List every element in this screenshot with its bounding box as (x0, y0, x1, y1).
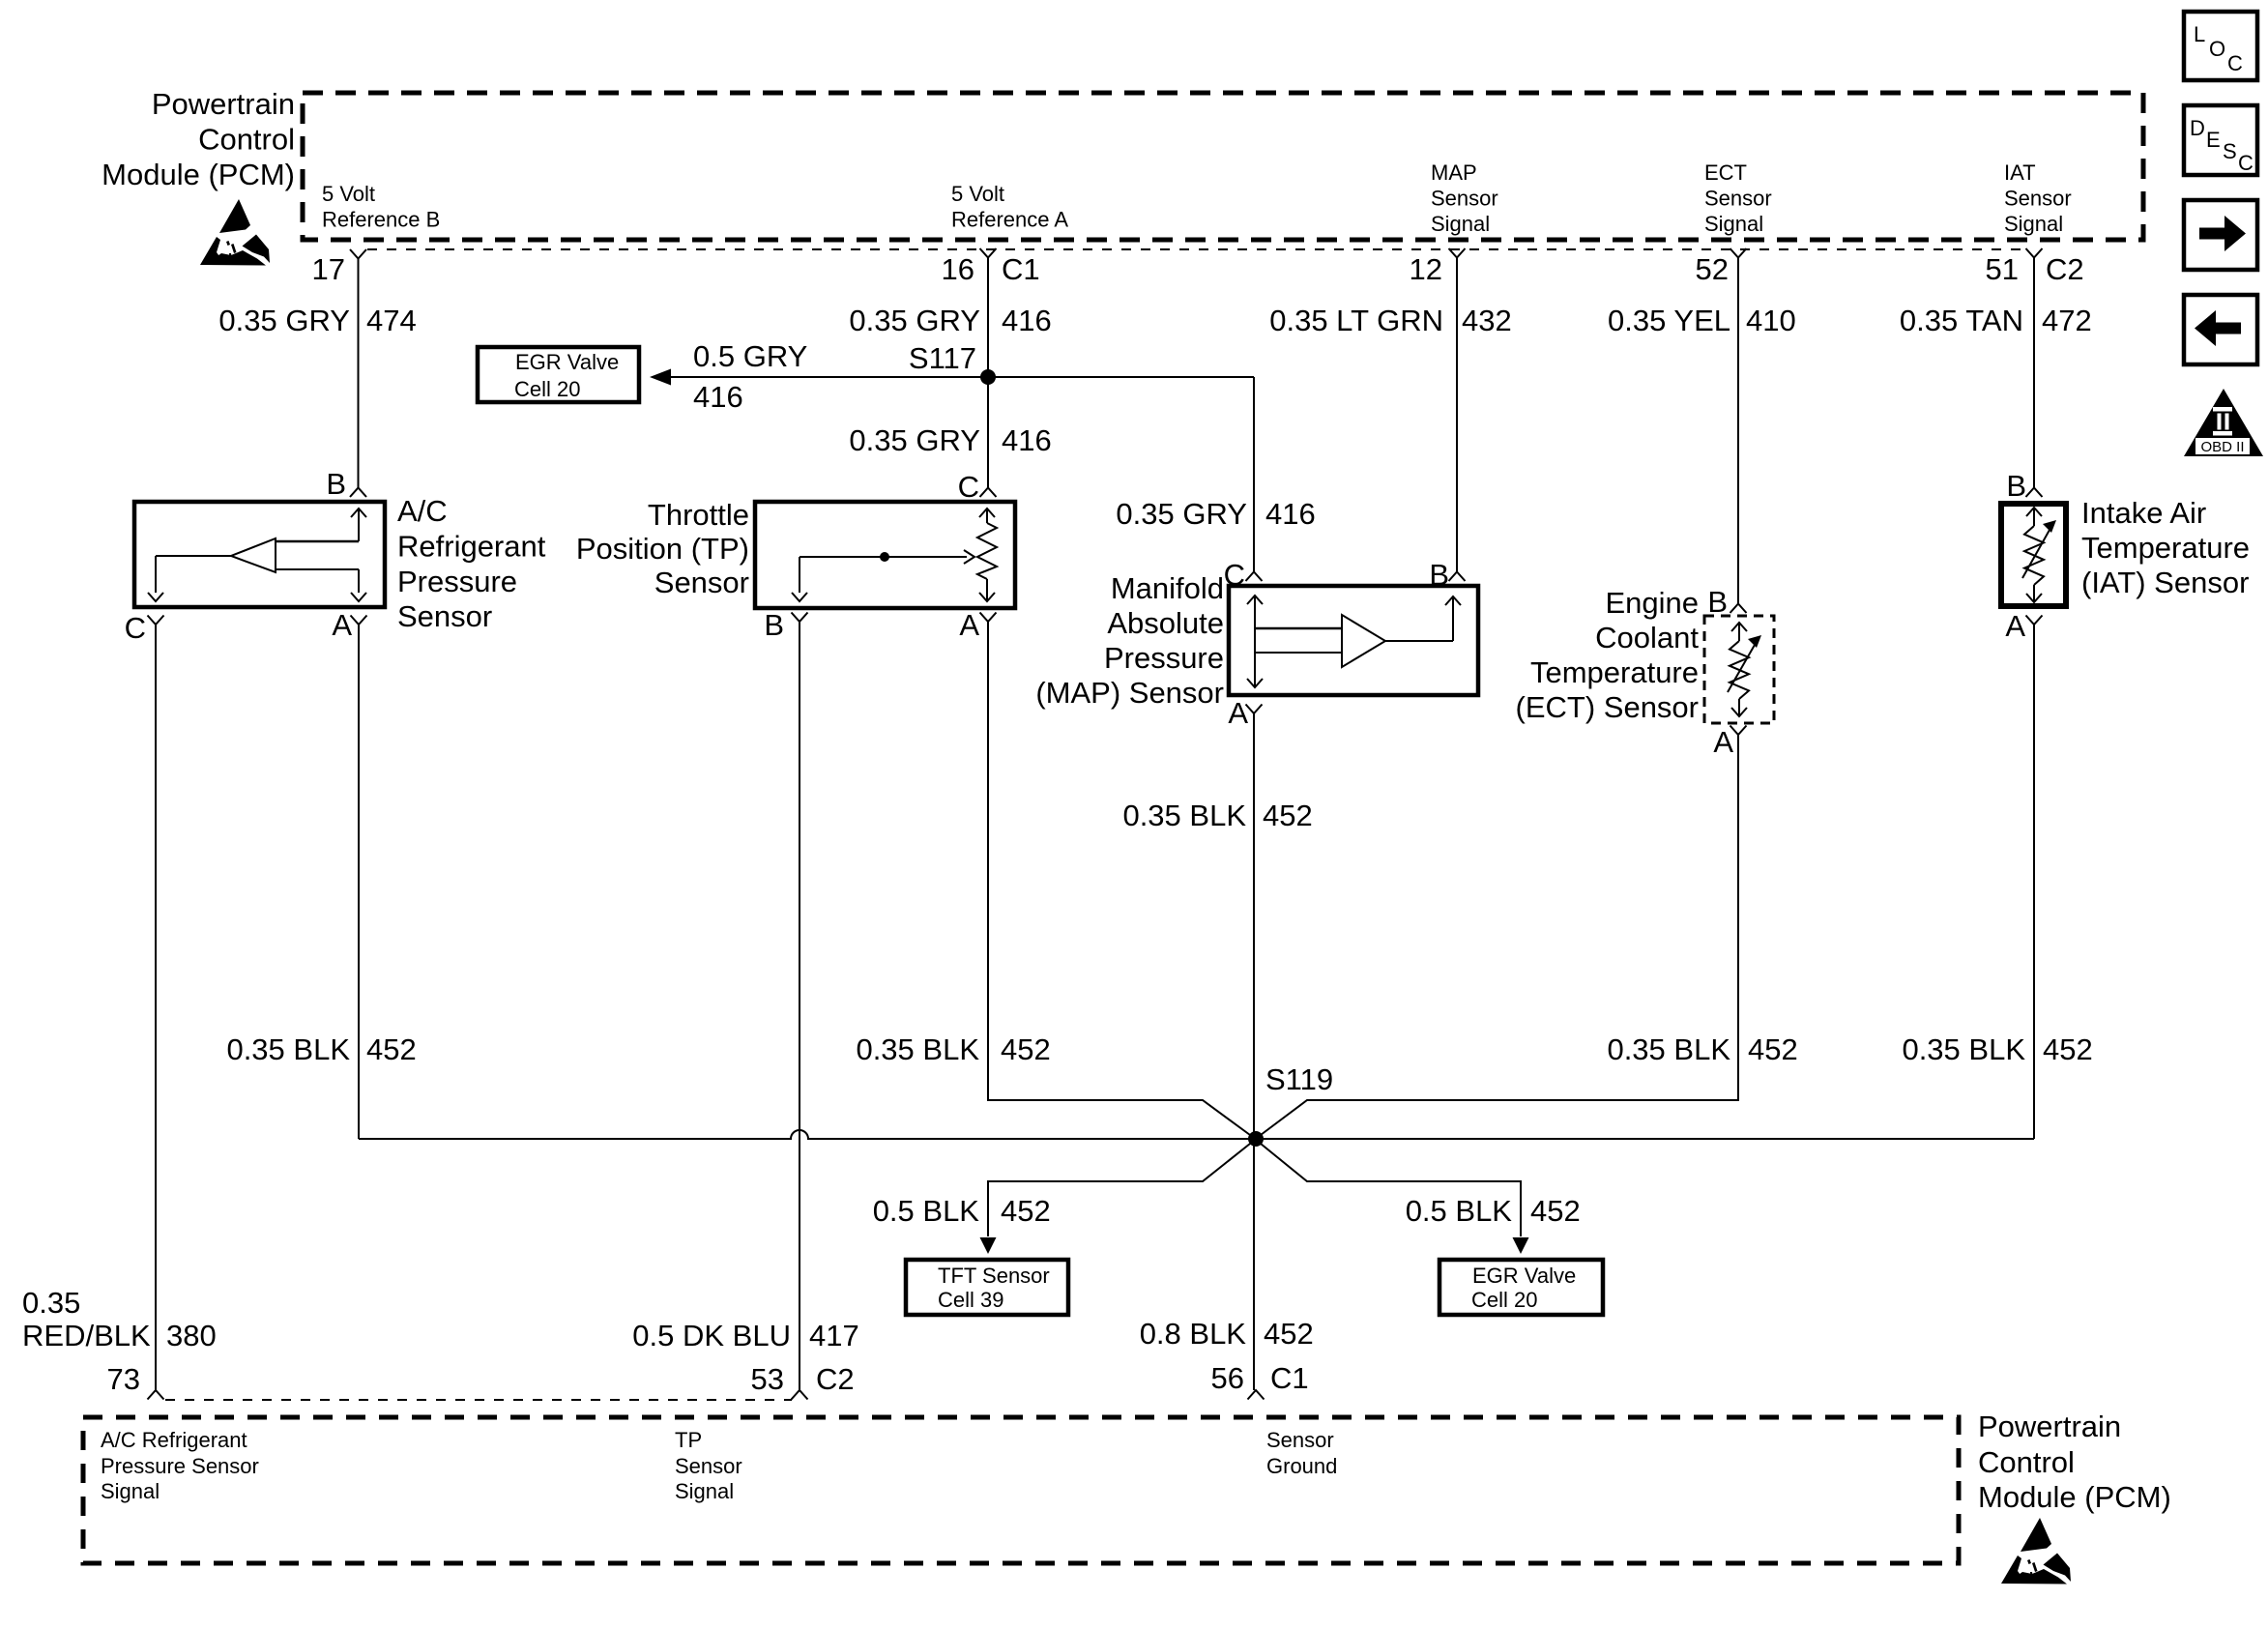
label 0.35 GRY 416 (MAP C) (1116, 497, 1315, 531)
svg-text:0.8 BLK: 0.8 BLK (1140, 1317, 1247, 1351)
svg-text:Signal: Signal (101, 1479, 160, 1503)
EGR Valve Cell 20 box (bottom) (1439, 1260, 1603, 1315)
svg-text:C1: C1 (1002, 252, 1040, 286)
svg-text:51: 51 (1986, 252, 2019, 286)
svg-text:Position (TP): Position (TP) (576, 532, 749, 566)
label 0.8 BLK 452 (sensor ground) (1140, 1317, 1314, 1351)
svg-text:S119: S119 (1265, 1062, 1333, 1096)
pin C of TP sensor (958, 470, 997, 504)
ECT sensor dashed box (1704, 616, 1774, 723)
pin B of IAT sensor (2006, 469, 2042, 503)
svg-text:Signal: Signal (1431, 212, 1490, 236)
pin 12 (MAP signal) (1410, 248, 1466, 286)
svg-text:A: A (1713, 725, 1733, 759)
IAT sensor box (2001, 504, 2066, 606)
svg-text:C: C (2227, 51, 2243, 75)
MAP sensor box (1229, 586, 1478, 695)
svg-text:A: A (332, 608, 352, 642)
svg-text:C2: C2 (816, 1362, 855, 1396)
svg-text:17: 17 (312, 252, 345, 286)
svg-text:C2: C2 (2046, 252, 2084, 286)
label 0.5 BLK 452 (EGR) (1406, 1194, 1581, 1228)
svg-text:Temperature: Temperature (1530, 655, 1699, 689)
EGR Valve Cell 20 box (top) (478, 347, 639, 402)
svg-text:Pressure Sensor: Pressure Sensor (101, 1454, 259, 1478)
svg-text:0.35 GRY: 0.35 GRY (218, 304, 350, 337)
ECT Sensor Signal label (1704, 160, 1772, 236)
PCM module (top) dashed box (303, 93, 2143, 240)
svg-text:B: B (1429, 558, 1449, 592)
ESD warning symbol (bottom PCM) (2001, 1518, 2071, 1584)
svg-text:474: 474 (366, 304, 417, 337)
pin C of MAP sensor (1224, 558, 1263, 592)
svg-text:0.35 BLK: 0.35 BLK (856, 1032, 979, 1066)
pin 73 (A/C signal) (107, 1362, 164, 1400)
svg-text:EGR Valve: EGR Valve (1472, 1264, 1576, 1288)
svg-text:Refrigerant: Refrigerant (397, 530, 546, 564)
svg-text:Cell 20: Cell 20 (1471, 1288, 1537, 1312)
svg-text:0.5 BLK: 0.5 BLK (1406, 1194, 1513, 1228)
C1/C2 connector dashed line (top) (367, 248, 2024, 250)
label 0.5 BLK 452 (TFT) (873, 1194, 1051, 1228)
pin 52 (ECT signal) (1696, 248, 1747, 286)
label 0.35 GRY 416 (upper) (849, 304, 1051, 337)
TFT Sensor Cell 39 box (906, 1260, 1068, 1315)
label 0.5 DK BLU 417 (632, 1319, 858, 1352)
svg-text:Sensor: Sensor (397, 599, 492, 633)
IAT sensor name label (2081, 496, 2250, 599)
svg-text:16: 16 (942, 252, 974, 286)
svg-text:Cell 39: Cell 39 (938, 1288, 1003, 1312)
svg-text:416: 416 (1002, 423, 1052, 457)
A/C sensor internals (amplifier) (148, 509, 366, 601)
svg-text:0.35: 0.35 (22, 1286, 80, 1320)
svg-text:A: A (1228, 696, 1248, 730)
svg-text:452: 452 (1001, 1032, 1051, 1066)
label 0.35 BLK 452 (IAT) (1902, 1032, 2092, 1066)
svg-text:Sensor: Sensor (1704, 187, 1772, 211)
svg-text:52: 52 (1696, 252, 1729, 286)
wire 416 branch: S117 to EGR valve (arrow) (650, 369, 1254, 386)
MAP sensor internals (amplifier) (1247, 596, 1461, 687)
svg-text:Sensor: Sensor (1431, 187, 1498, 211)
svg-text:O: O (2209, 37, 2225, 61)
svg-text:452: 452 (366, 1032, 417, 1066)
wire 474: pin 17 to A/C B (358, 259, 360, 489)
wire 416 branch to MAP C (1253, 377, 1255, 572)
pin C of A/C sensor (125, 611, 164, 645)
svg-text:EGR Valve: EGR Valve (515, 350, 619, 374)
label 0.5 GRY / 416 (693, 339, 807, 414)
svg-text:C: C (1224, 558, 1245, 592)
svg-text:S: S (2223, 139, 2237, 163)
label 0.35 BLK 452 (MAP) (1122, 799, 1312, 832)
svg-text:0.35 BLK: 0.35 BLK (1607, 1032, 1730, 1066)
svg-text:IAT: IAT (2004, 160, 2036, 185)
ground bus wire 452 (horizontal) with hop over TP wire (359, 1130, 2034, 1139)
svg-text:TFT Sensor: TFT Sensor (938, 1264, 1050, 1288)
IAT Sensor Signal label (2004, 160, 2072, 236)
MAP sensor name label (1035, 571, 1224, 710)
label 0.35 GRY 416 (below S117) (849, 423, 1051, 457)
svg-text:0.35 GRY: 0.35 GRY (1116, 497, 1247, 531)
svg-text:452: 452 (1264, 1317, 1314, 1351)
svg-text:0.35 BLK: 0.35 BLK (1902, 1032, 2025, 1066)
svg-text:Engine: Engine (1605, 586, 1699, 620)
svg-text:Sensor: Sensor (654, 566, 749, 599)
pin A of MAP sensor (1228, 696, 1262, 730)
pin B of A/C sensor (326, 467, 366, 501)
svg-text:C1: C1 (1270, 1361, 1309, 1395)
svg-text:RED/BLK: RED/BLK (22, 1319, 151, 1352)
svg-text:452: 452 (2043, 1032, 2093, 1066)
wire 416: pin 16 to TP C through S117 (987, 258, 989, 489)
svg-text:Coolant: Coolant (1595, 621, 1699, 654)
Sensor Ground label (1266, 1428, 1337, 1478)
left-arrow icon (2184, 295, 2257, 364)
svg-text:Throttle: Throttle (648, 498, 749, 532)
svg-text:Signal: Signal (1704, 212, 1763, 236)
MAP Sensor Signal label (1431, 160, 1498, 236)
svg-text:ECT: ECT (1704, 160, 1747, 185)
svg-text:E: E (2206, 128, 2221, 152)
svg-text:C: C (2238, 151, 2253, 175)
svg-text:Sensor: Sensor (2004, 187, 2072, 211)
label 0.35 BLK 452 (A/C) (226, 1032, 416, 1066)
A/C refrigerant pressure sensor box (134, 502, 385, 607)
svg-text:Module (PCM): Module (PCM) (1978, 1480, 2171, 1514)
svg-text:C: C (125, 611, 146, 645)
C2 connector dashed line (bottom) (165, 1399, 792, 1401)
svg-text:Sensor: Sensor (675, 1454, 742, 1478)
svg-text:452: 452 (1263, 799, 1313, 832)
label 0.35 GRY 474 (218, 304, 416, 337)
svg-text:D: D (2190, 116, 2205, 140)
ESD warning symbol (top PCM) (200, 199, 270, 266)
5 Volt Reference A label (951, 182, 1068, 232)
svg-text:Control: Control (198, 123, 295, 157)
svg-text:Signal: Signal (2004, 212, 2063, 236)
label 0.35 RED/BLK 380 (22, 1286, 217, 1352)
wire 410: pin 52 to ECT B (1737, 258, 1739, 605)
svg-text:Control: Control (1978, 1445, 2075, 1479)
svg-text:OBD II: OBD II (2200, 439, 2244, 455)
wire 472: pin 51 to IAT B (2033, 258, 2035, 489)
OBD II icon (2184, 389, 2263, 456)
svg-text:C: C (958, 470, 979, 504)
svg-text:Signal: Signal (675, 1479, 734, 1503)
svg-text:Reference B: Reference B (322, 208, 440, 232)
pin 56 C1 (sensor ground) (1211, 1361, 1309, 1400)
svg-text:B: B (2006, 469, 2026, 503)
svg-text:416: 416 (693, 380, 743, 414)
svg-text:5 Volt: 5 Volt (322, 182, 375, 206)
svg-text:Absolute: Absolute (1107, 606, 1224, 640)
svg-text:A/C Refrigerant: A/C Refrigerant (101, 1428, 247, 1452)
ECT sensor internals (thermistor) (1728, 623, 1761, 716)
svg-text:416: 416 (1265, 497, 1316, 531)
splice S119 (1248, 1062, 1333, 1147)
pin A of ECT sensor (1713, 725, 1746, 759)
svg-text:(ECT) Sensor: (ECT) Sensor (1516, 690, 1699, 724)
svg-text:380: 380 (166, 1319, 217, 1352)
label 0.35 LT GRN 432 (1269, 304, 1512, 337)
pin B of TP sensor (764, 608, 807, 642)
svg-text:MAP: MAP (1431, 160, 1477, 185)
svg-text:Reference A: Reference A (951, 208, 1068, 232)
svg-text:Manifold: Manifold (1111, 571, 1224, 605)
wire 380: A/C C to pin 73 (155, 625, 157, 1390)
5 Volt Reference B label (322, 182, 440, 232)
svg-text:417: 417 (809, 1319, 859, 1352)
svg-text:A: A (959, 608, 979, 642)
svg-text:56: 56 (1211, 1361, 1244, 1395)
svg-text:5 Volt: 5 Volt (951, 182, 1004, 206)
svg-text:0.5 GRY: 0.5 GRY (693, 339, 807, 373)
svg-text:A/C: A/C (397, 494, 448, 528)
svg-text:0.35 GRY: 0.35 GRY (849, 304, 980, 337)
svg-text:0.5 BLK: 0.5 BLK (873, 1194, 980, 1228)
TP Sensor Signal label (675, 1428, 742, 1503)
svg-text:416: 416 (1002, 304, 1052, 337)
svg-text:53: 53 (751, 1362, 784, 1396)
pin 53 C2 (TP signal) (751, 1362, 855, 1400)
A/C Refrigerant Pressure Sensor Signal label (101, 1428, 259, 1503)
svg-text:L: L (2194, 22, 2205, 46)
PCM (top) label (102, 87, 295, 191)
pin 17 (5V Ref B) (312, 249, 366, 286)
wire 432: pin 12 to MAP B (1456, 258, 1458, 573)
label 0.35 TAN 472 (1900, 304, 2092, 337)
svg-text:S117: S117 (909, 341, 976, 375)
PCM module (bottom) dashed box (83, 1417, 1959, 1563)
svg-text:A: A (2005, 609, 2025, 643)
svg-text:B: B (326, 467, 346, 501)
pin B of MAP sensor (1429, 558, 1465, 592)
svg-text:Sensor: Sensor (1266, 1428, 1334, 1452)
wire 452: IAT A down to ground bus (2033, 625, 2035, 1139)
svg-text:Powertrain: Powertrain (152, 87, 295, 121)
svg-text:410: 410 (1746, 304, 1796, 337)
label 0.35 YEL 410 (1608, 304, 1796, 337)
svg-text:472: 472 (2042, 304, 2092, 337)
pin A of IAT sensor (2005, 609, 2042, 643)
wire 417: TP B down to pin 53 (799, 622, 800, 1390)
ECT sensor name label (1516, 586, 1700, 724)
svg-text:0.35 LT GRN: 0.35 LT GRN (1269, 304, 1443, 337)
wire 452: MAP A down to S119 and pin 56 (1253, 713, 1255, 1390)
svg-text:0.5 DK BLU: 0.5 DK BLU (632, 1319, 791, 1352)
A/C sensor name label (397, 494, 546, 633)
right-arrow icon (2184, 200, 2257, 270)
svg-text:0.35 YEL: 0.35 YEL (1608, 304, 1730, 337)
svg-text:Ground: Ground (1266, 1454, 1337, 1478)
Throttle Position sensor box (755, 502, 1015, 608)
svg-text:0.35 TAN: 0.35 TAN (1900, 304, 2023, 337)
wire to TFT sensor (S119 lower-left) (980, 1144, 1251, 1254)
TP sensor internals (potentiometer) (792, 509, 997, 601)
svg-text:B: B (764, 608, 784, 642)
svg-text:452: 452 (1001, 1194, 1051, 1228)
svg-text:Module (PCM): Module (PCM) (102, 158, 295, 191)
splice S117 (909, 341, 996, 385)
IAT sensor internals (thermistor) (2022, 508, 2056, 602)
svg-text:432: 432 (1462, 304, 1512, 337)
svg-text:73: 73 (107, 1362, 140, 1396)
svg-text:0.35 GRY: 0.35 GRY (849, 423, 980, 457)
pin 51 C2 (IAT signal) (1986, 248, 2084, 286)
svg-text:TP: TP (675, 1428, 702, 1452)
svg-text:Intake Air: Intake Air (2081, 496, 2206, 530)
PCM (bottom) label (1978, 1410, 2171, 1514)
wire 452: ECT A down to S119 (1261, 735, 1738, 1135)
svg-text:12: 12 (1410, 252, 1442, 286)
pin 16 C1 (5V Ref A) (942, 248, 1040, 286)
svg-text:B: B (1707, 585, 1728, 619)
svg-text:Pressure: Pressure (397, 565, 517, 598)
pin A of A/C sensor (332, 608, 366, 642)
LOC icon (2184, 12, 2257, 80)
DESC icon (2184, 105, 2257, 175)
pin A of TP sensor (959, 608, 996, 642)
svg-text:Powertrain: Powertrain (1978, 1410, 2121, 1443)
svg-text:Cell 20: Cell 20 (514, 377, 580, 401)
svg-text:0.35 BLK: 0.35 BLK (1122, 799, 1246, 832)
wire 452: A/C A down to ground bus (358, 625, 360, 1139)
svg-text:(IAT) Sensor: (IAT) Sensor (2081, 566, 2249, 599)
label 0.35 BLK 452 (ECT) (1607, 1032, 1797, 1066)
svg-text:(MAP) Sensor: (MAP) Sensor (1035, 676, 1224, 710)
svg-text:452: 452 (1748, 1032, 1798, 1066)
wire to EGR valve (S119 lower-right) (1261, 1144, 1529, 1254)
label 0.35 BLK 452 (TP) (856, 1032, 1050, 1066)
svg-text:452: 452 (1530, 1194, 1581, 1228)
svg-text:Temperature: Temperature (2081, 531, 2250, 565)
svg-text:Pressure: Pressure (1104, 641, 1224, 675)
svg-text:0.35 BLK: 0.35 BLK (226, 1032, 350, 1066)
TP sensor name label (576, 498, 749, 599)
pin B of ECT sensor (1707, 585, 1746, 619)
wire 452: TP A down to S119 (988, 622, 1250, 1135)
